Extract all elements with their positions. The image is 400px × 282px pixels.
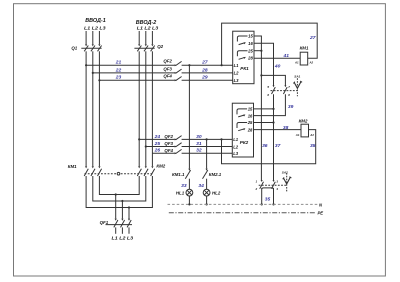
wire feeder1 phase L3 vertical bbox=[98, 51, 100, 166]
svg-text:27: 27 bbox=[309, 35, 316, 41]
wire 32 bbox=[182, 152, 233, 154]
svg-text:А2: А2 bbox=[309, 133, 314, 137]
contact KM1.1 bbox=[172, 169, 191, 179]
wire feeder2 phase L2 top bbox=[145, 31, 147, 44]
N bus bbox=[168, 203, 318, 205]
wire feeder2 phase L3 top bbox=[151, 31, 153, 44]
svg-text:29: 29 bbox=[201, 75, 208, 81]
svg-text:41: 41 bbox=[283, 53, 290, 59]
svg-text:L2: L2 bbox=[233, 144, 239, 149]
wire 41 РК1.28 to KM1 coil bbox=[254, 57, 300, 59]
svg-text:37: 37 bbox=[275, 143, 281, 149]
node output L1 L2 L3 bbox=[112, 236, 134, 241]
svg-text:QF3: QF3 bbox=[164, 141, 173, 146]
svg-text:5: 5 bbox=[267, 85, 269, 89]
wire feeder1 phase L2 top bbox=[92, 31, 94, 44]
PE bus bbox=[169, 212, 316, 214]
svg-text:L1 L2 L3: L1 L2 L3 bbox=[84, 25, 106, 30]
svg-text:N: N bbox=[319, 202, 323, 207]
breaker QF1 bbox=[100, 219, 132, 228]
wire 37 SA1 pole1 bottom down bbox=[273, 94, 275, 181]
svg-text:4: 4 bbox=[275, 187, 278, 191]
svg-text:КМ1: КМ1 bbox=[300, 46, 309, 51]
svg-text:L2: L2 bbox=[234, 71, 240, 76]
breaker QF4 upper bbox=[163, 74, 181, 82]
wire РК1.16 / wire 40 bbox=[254, 43, 274, 86]
wire QF1 outputs bbox=[115, 227, 117, 233]
wire РК2.15 to wire37 bbox=[254, 108, 274, 110]
svg-text:КМ2: КМ2 bbox=[156, 163, 165, 168]
svg-text:КМ1.1: КМ1.1 bbox=[172, 172, 185, 177]
svg-text:24: 24 bbox=[154, 134, 161, 140]
svg-text:21: 21 bbox=[115, 60, 122, 66]
svg-text:40: 40 bbox=[274, 64, 281, 70]
contact KM2.1 bbox=[203, 169, 222, 179]
svg-text:25: 25 bbox=[154, 141, 161, 147]
breaker QF4 lower bbox=[164, 148, 181, 154]
branch node A to SA1 pole2 bbox=[261, 75, 285, 86]
svg-text:QF3: QF3 bbox=[163, 66, 172, 71]
svg-text:PE: PE bbox=[318, 211, 324, 216]
svg-text:А2: А2 bbox=[309, 60, 314, 64]
svg-text:31: 31 bbox=[196, 141, 202, 147]
wire HL1 to N bbox=[188, 196, 190, 204]
svg-text:8: 8 bbox=[288, 93, 290, 97]
wire HL2 to N bbox=[206, 196, 208, 204]
wire KM1.p1 to KM2.p3 (lower U) bbox=[86, 176, 152, 208]
svg-text:30: 30 bbox=[196, 134, 202, 140]
svg-text:28: 28 bbox=[247, 127, 253, 132]
junction node wire30/KM2 coil return bbox=[220, 138, 222, 140]
lamp HL2 bbox=[203, 189, 221, 196]
svg-text:1: 1 bbox=[256, 180, 258, 184]
svg-text:Q2: Q2 bbox=[157, 44, 163, 49]
wire 27 bbox=[182, 64, 233, 66]
svg-text:L1: L1 bbox=[233, 137, 239, 142]
svg-text:16: 16 bbox=[248, 113, 253, 118]
wire KM1.p3 to KM2.p1 (upper U) bbox=[99, 176, 139, 195]
svg-text:23: 23 bbox=[115, 75, 122, 81]
switch SA2 bbox=[255, 171, 292, 193]
wire 28 bbox=[182, 72, 233, 74]
svg-text:35: 35 bbox=[265, 197, 271, 203]
wire KM1 coil to top rail bbox=[222, 23, 318, 65]
svg-text:HL2: HL2 bbox=[212, 191, 221, 196]
svg-text:HL1: HL1 bbox=[176, 191, 185, 196]
svg-text:38: 38 bbox=[283, 125, 289, 131]
svg-text:16: 16 bbox=[248, 41, 253, 46]
svg-text:22: 22 bbox=[115, 67, 122, 73]
wire 23 bbox=[99, 79, 174, 81]
wire drop to QF1 pole2 bbox=[121, 201, 123, 219]
wire feeder1 phase L1 vertical bbox=[85, 51, 87, 166]
svg-text:SA1: SA1 bbox=[294, 74, 300, 78]
wire 21 bbox=[86, 64, 175, 66]
breaker QF3 upper bbox=[163, 66, 181, 74]
node ВВОД-2 bbox=[136, 20, 159, 30]
wire drop to QF1 pole3 bbox=[128, 208, 130, 219]
contactor KM1 main contacts bbox=[68, 164, 102, 176]
svg-text:2: 2 bbox=[255, 187, 258, 191]
svg-text:L3: L3 bbox=[234, 78, 240, 83]
svg-text:ВВОД-1: ВВОД-1 bbox=[85, 18, 105, 24]
svg-text:А1: А1 bbox=[295, 133, 300, 137]
wire KM1.1 branch from wire27 bbox=[188, 65, 190, 168]
mechanical link KM1-KM2 bbox=[85, 173, 153, 175]
svg-text:Q1: Q1 bbox=[71, 46, 77, 51]
svg-text:28: 28 bbox=[201, 67, 208, 73]
svg-text:L1 L2 L3: L1 L2 L3 bbox=[112, 236, 134, 241]
wire feeder1 phase L3 top bbox=[98, 31, 100, 44]
relay РК2 bbox=[232, 103, 253, 157]
svg-text:РК1: РК1 bbox=[240, 66, 249, 71]
wire 24 bbox=[139, 138, 174, 140]
svg-text:7: 7 bbox=[288, 85, 290, 89]
wire feeder2 phase L2 vertical bbox=[145, 51, 147, 166]
svg-text:КМ2: КМ2 bbox=[299, 119, 308, 124]
svg-text:25: 25 bbox=[247, 48, 253, 53]
switch SA1 bbox=[267, 74, 302, 97]
node ВВОД-1 bbox=[84, 18, 106, 30]
svg-text:QF4: QF4 bbox=[164, 148, 173, 153]
svg-text:35: 35 bbox=[310, 143, 316, 149]
svg-text:26: 26 bbox=[154, 148, 161, 154]
wire feeder2 phase L3 vertical bbox=[151, 51, 153, 166]
wire 31 bbox=[182, 146, 233, 148]
wire 38 РК2.28 to KM2 coil bbox=[254, 129, 302, 131]
svg-text:QF2: QF2 bbox=[163, 59, 172, 64]
wire 22 bbox=[93, 72, 175, 74]
svg-text:РК2: РК2 bbox=[240, 140, 249, 145]
svg-text:39: 39 bbox=[288, 104, 294, 110]
wire 35 SA2 to N bus bbox=[262, 188, 274, 205]
svg-text:L1 L2 L3: L1 L2 L3 bbox=[137, 25, 159, 30]
wire feeder2 phase L1 vertical bbox=[138, 51, 140, 166]
svg-text:КМ1: КМ1 bbox=[68, 164, 77, 169]
wire feeder2 phase L1 top bbox=[138, 31, 140, 44]
wire KM1.p2 to KM2.p2 (middle U) bbox=[93, 176, 146, 201]
contactor coil KM2 bbox=[295, 119, 315, 137]
svg-text:28: 28 bbox=[247, 56, 253, 61]
wire 36 (node A vertical) bbox=[260, 43, 262, 181]
wire feeder1 phase L2 vertical bbox=[92, 51, 94, 166]
svg-text:33: 33 bbox=[181, 183, 187, 189]
relay РК1 bbox=[233, 31, 254, 83]
wire feeder1 phase L1 top bbox=[85, 31, 87, 44]
lamp HL1 bbox=[176, 189, 193, 196]
wire 29 bbox=[182, 79, 233, 81]
svg-text:6: 6 bbox=[267, 93, 269, 97]
svg-text:34: 34 bbox=[198, 183, 204, 189]
wire 39 SA1 pole2 bottom down bbox=[254, 94, 286, 115]
breaker QF3 lower bbox=[164, 141, 181, 147]
svg-text:L3: L3 bbox=[233, 151, 239, 156]
svg-text:25: 25 bbox=[247, 120, 253, 125]
svg-text:А1: А1 bbox=[294, 60, 299, 64]
breaker QF2 lower bbox=[164, 134, 181, 140]
junction РК1.25 on wire36 bbox=[254, 50, 261, 52]
svg-text:15: 15 bbox=[248, 34, 253, 39]
wire 34 bbox=[206, 179, 208, 190]
svg-text:32: 32 bbox=[196, 148, 202, 154]
wire 25 bbox=[146, 146, 175, 148]
svg-text:КМ2.1: КМ2.1 bbox=[209, 172, 222, 177]
contactor KM2 main contacts bbox=[137, 163, 165, 176]
svg-text:L1: L1 bbox=[234, 63, 240, 68]
junction node wire27/KM1 riser bbox=[221, 64, 223, 66]
wire 26 bbox=[152, 152, 174, 154]
wire drop to QF1 pole1 bbox=[115, 195, 117, 219]
svg-text:27: 27 bbox=[201, 60, 208, 66]
svg-text:QF4: QF4 bbox=[163, 74, 172, 79]
svg-text:15: 15 bbox=[248, 107, 253, 112]
svg-text:QF1: QF1 bbox=[100, 220, 109, 225]
svg-text:QF2: QF2 bbox=[164, 134, 173, 139]
wire 30 bbox=[182, 138, 233, 140]
junction node wire30/KM2.1 bbox=[206, 138, 208, 140]
wire РК2.25 to wire37 bbox=[254, 122, 274, 124]
switch Q1 bbox=[71, 44, 101, 51]
wire KM2 coil return to wire30 bbox=[222, 130, 316, 164]
wire РК1.15 to node A bbox=[254, 36, 261, 43]
switch Q2 bbox=[134, 44, 163, 51]
contactor coil KM1 bbox=[294, 46, 314, 65]
svg-text:36: 36 bbox=[262, 143, 268, 149]
wire 33 bbox=[188, 179, 190, 190]
svg-text:3: 3 bbox=[276, 180, 278, 184]
breaker QF2 upper bbox=[163, 59, 181, 67]
wire KM2.1 branch from wire30 bbox=[206, 139, 208, 168]
